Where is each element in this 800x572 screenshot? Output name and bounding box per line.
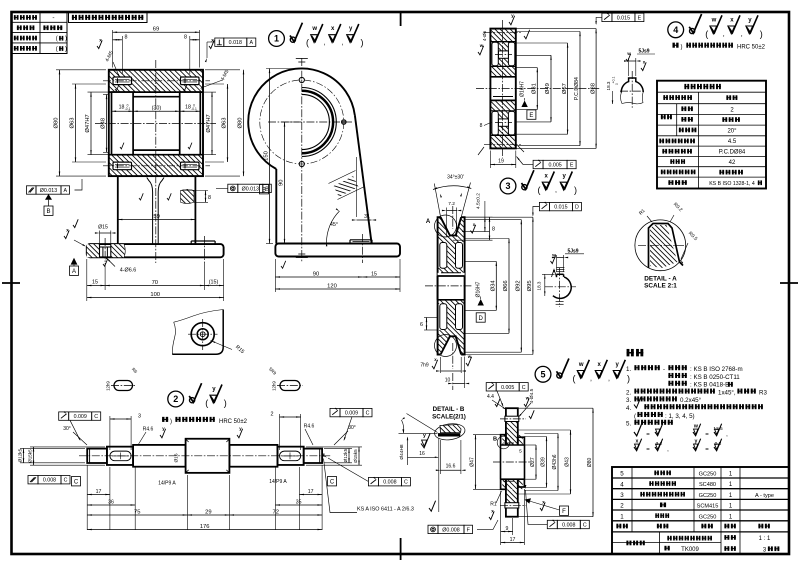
svg-text:SCM415: SCM415 (697, 504, 719, 510)
svg-text:Ø15k5: Ø15k5 (28, 449, 33, 463)
svg-text:18: 18 (185, 105, 191, 111)
svg-text:): ) (224, 398, 227, 408)
svg-text:F: F (562, 509, 566, 515)
svg-text:3.: 3. (626, 397, 631, 404)
dim 16.6 (460, 440, 462, 474)
detail B blob (434, 422, 467, 442)
svg-text:8: 8 (208, 195, 211, 201)
cover right boss (518, 437, 525, 487)
dim 16 (408, 456, 439, 458)
svg-text:16.6: 16.6 (446, 464, 456, 470)
frames 0.009 C (59, 412, 69, 420)
base bolt hole (99, 244, 101, 257)
web left edge (275, 169, 277, 244)
svg-text:0.005: 0.005 (548, 163, 561, 169)
dim 8 top-left (121, 36, 123, 74)
svg-text:4: 4 (620, 481, 624, 488)
svg-text:6: 6 (420, 322, 423, 328)
geo frame conc &#216;0.013 B (228, 184, 238, 192)
svg-text:Ø16H7: Ø16H7 (476, 281, 482, 297)
svg-text:3: 3 (138, 413, 141, 419)
svg-text:): ) (574, 185, 577, 195)
svg-text:42: 42 (729, 160, 736, 166)
svg-text:Ø27: Ø27 (530, 457, 536, 467)
cover dim left (473, 434, 501, 436)
shaft keyway left (110, 451, 131, 461)
svg-text:20°: 20° (727, 129, 737, 135)
svg-text:100: 100 (150, 292, 160, 298)
svg-text:5: 5 (540, 370, 545, 380)
datum C boxes (72, 477, 81, 486)
svg-text:0.008: 0.008 (43, 478, 56, 484)
svg-text:(: ( (306, 38, 309, 48)
detail B thick edge (438, 433, 460, 436)
svg-text:1.: 1. (626, 366, 631, 373)
svg-text:A: A (250, 40, 254, 46)
frame 0.005 E bottom (533, 160, 543, 168)
shaft centerline (79, 455, 331, 457)
svg-text:: KS B 0418-B: : KS B 0418-B (690, 382, 729, 389)
svg-text:: KS B ISO 2768-m: : KS B ISO 2768-m (690, 366, 743, 373)
svg-text:Ø15: Ø15 (98, 225, 108, 231)
svg-text:Ø44H8: Ø44H8 (399, 444, 405, 460)
gear hatch rim top (490, 29, 515, 42)
svg-text:0.018: 0.018 (229, 40, 242, 46)
svg-text:SCALE(2/1): SCALE(2/1) (432, 413, 466, 420)
svg-text:5Js9: 5Js9 (638, 49, 649, 55)
svg-text:,: , (741, 31, 743, 38)
svg-text:4.4: 4.4 (487, 394, 494, 400)
dim 8 top-right (189, 36, 191, 74)
shaft note (162, 417, 164, 422)
detail B taper angle (399, 432, 438, 434)
part callout 4 (668, 22, 684, 38)
dim 59 web (118, 219, 196, 221)
groove angle fan 34 (434, 184, 440, 218)
gear lightening hole bands (499, 51, 509, 58)
frame 0.005 C top (486, 383, 496, 391)
svg-text:Ø34: Ø34 (491, 280, 497, 292)
gear outline (490, 29, 515, 149)
tolerance frame 0.018 A (215, 38, 224, 46)
svg-text:): ) (361, 38, 364, 48)
svg-text:SC480: SC480 (699, 482, 716, 488)
part callout 5 (535, 366, 551, 382)
base check flag bottom (103, 259, 108, 267)
center bore shoulder lines (133, 96, 180, 98)
pulley hatch top rim (438, 217, 465, 242)
svg-text:x: x (99, 38, 102, 43)
svg-text:C: C (583, 523, 587, 529)
bearing pocket right (180, 92, 201, 155)
svg-text:29: 29 (205, 509, 211, 515)
svg-text:C: C (74, 480, 79, 486)
cover bore (501, 445, 525, 479)
svg-text:GC250: GC250 (699, 472, 717, 478)
svg-text:=: = (646, 432, 650, 438)
gear bore (490, 77, 515, 101)
svg-text:17: 17 (510, 537, 516, 543)
right dim lines (465, 260, 497, 262)
svg-text:(: ( (56, 47, 58, 53)
bearing pocket left (112, 92, 134, 155)
pulley hatch web bands (447, 242, 456, 268)
rib local section hatch (181, 189, 195, 203)
svg-text:Ø31: Ø31 (532, 83, 538, 94)
gear hatch web bottom (490, 132, 515, 135)
svg-text:19: 19 (498, 159, 504, 165)
svg-text:7h9: 7h9 (420, 363, 429, 369)
svg-text:Ø63: Ø63 (222, 118, 228, 129)
svg-text:C: C (64, 478, 68, 484)
gear bottom dim 19 (489, 151, 491, 169)
svg-text:SCALE 2:1: SCALE 2:1 (644, 283, 677, 290)
gear web recess slots (492, 42, 498, 65)
svg-text:C: C (366, 411, 370, 417)
svg-text:0.009: 0.009 (74, 414, 87, 420)
svg-text:,: , (590, 375, 592, 382)
svg-text:): ) (681, 45, 683, 51)
cover surface checks (495, 398, 500, 406)
dim 7.2 groove (446, 208, 448, 238)
svg-text:Ø43h6: Ø43h6 (552, 454, 558, 469)
svg-text:4.: 4. (626, 405, 631, 412)
svg-text:8: 8 (125, 35, 128, 41)
svg-text:35: 35 (296, 499, 302, 505)
detail B surface check (421, 434, 430, 448)
bolt circle dash-dot (260, 80, 344, 164)
tapped hole slot (113, 77, 132, 85)
right vertical dims (202, 91, 216, 93)
svg-text:0.015: 0.015 (554, 205, 567, 211)
svg-text:0.009: 0.009 (345, 411, 358, 417)
shaft outline (87, 449, 107, 463)
svg-text:w: w (578, 362, 584, 368)
svg-text:Ø16H7: Ø16H7 (520, 81, 526, 97)
svg-text:C: C (94, 414, 98, 420)
left vertical dims (56, 69, 106, 71)
svg-text:P.C.DØ84: P.C.DØ84 (574, 77, 580, 100)
pulley outline (438, 217, 441, 354)
hole circle (197, 329, 208, 340)
body partial bottom view (172, 310, 223, 355)
svg-text:y: y (694, 438, 697, 444)
keyway detail stadium right (280, 381, 300, 391)
svg-text:R3: R3 (759, 389, 767, 396)
exam info table (12, 12, 68, 54)
svg-text:90: 90 (279, 180, 285, 186)
svg-text:0: 0 (615, 83, 619, 85)
svg-text:Ø47: Ø47 (470, 457, 476, 467)
frame 0.015 D with leader (539, 202, 549, 210)
svg-text:Ø47H7: Ø47H7 (85, 114, 91, 132)
dim (30) center (133, 110, 180, 112)
svg-text:4.5: 4.5 (728, 139, 737, 145)
svg-text:(15): (15) (209, 280, 219, 286)
svg-text:B: B (493, 437, 497, 443)
svg-text:(: ( (56, 36, 58, 42)
svg-text:HRC 50±2: HRC 50±2 (737, 45, 766, 51)
dim 18 right pocket (180, 110, 201, 112)
svg-text:w: w (626, 51, 631, 56)
frame conc 0.008 F (428, 525, 438, 533)
base left local section (87, 244, 100, 257)
svg-text:): ) (170, 419, 172, 425)
svg-text:150: 150 (264, 151, 270, 161)
svg-text:Ø47H7: Ø47H7 (206, 114, 212, 132)
svg-text:16: 16 (419, 451, 425, 457)
body cylinder outline (109, 70, 203, 176)
svg-text:B: B (262, 188, 266, 194)
cover centerline (493, 461, 532, 463)
base bottom dims (86, 259, 88, 301)
svg-text:59: 59 (153, 214, 159, 220)
datum D box (476, 313, 485, 322)
pulley hatch bottom rim (438, 330, 465, 355)
gear note (672, 43, 674, 48)
svg-text:C: C (404, 480, 408, 486)
svg-text:3: 3 (620, 492, 624, 499)
svg-text:Ø67: Ø67 (562, 83, 568, 94)
keyway detail stadium left (114, 381, 133, 391)
dim 69 top (112, 30, 114, 68)
right dim lines gear (516, 67, 538, 69)
pitch line + dim 4.5 (462, 231, 490, 233)
body top hatch band (109, 70, 203, 92)
svg-text:Ø80: Ø80 (238, 117, 244, 128)
svg-text:C: C (522, 385, 526, 391)
detail circle A top (435, 215, 457, 237)
cover spigot (501, 435, 506, 490)
svg-text:0.008: 0.008 (383, 480, 396, 486)
svg-text:18.3: 18.3 (606, 81, 611, 90)
svg-text:3: 3 (505, 181, 510, 191)
svg-text:w: w (711, 17, 717, 23)
svg-text:69: 69 (153, 26, 159, 32)
notes block (627, 349, 630, 356)
pulley keyway surface marks (551, 255, 556, 263)
cover dims right (524, 444, 536, 446)
svg-text:P.C.DØ84: P.C.DØ84 (719, 150, 746, 156)
bottom groove width 7h9 (441, 370, 462, 372)
svg-text:4.5±0.2: 4.5±0.2 (476, 193, 482, 209)
svg-text:w: w (525, 396, 530, 401)
svg-text:Ø63: Ø63 (70, 118, 76, 129)
svg-text:2: 2 (271, 411, 274, 417)
cover flange outline (506, 408, 518, 517)
bottom dim 10 (464, 357, 466, 389)
svg-text:18.3: 18.3 (537, 281, 542, 290)
dim 9 / 17 bottom (500, 491, 502, 545)
svg-text:5.: 5. (626, 421, 631, 428)
svg-text:C: C (330, 480, 335, 486)
svg-text:17: 17 (96, 489, 102, 495)
svg-text:5: 5 (620, 471, 624, 478)
base chamfer marks left (64, 230, 69, 238)
part callout 3 (500, 178, 516, 194)
frame 0.015 E top (602, 13, 612, 21)
cover lip lines (503, 442, 514, 444)
mark below base (281, 261, 286, 269)
svg-text:30°: 30° (63, 426, 71, 432)
svg-text:w: w (467, 354, 472, 359)
svg-text:1: 1 (620, 513, 624, 520)
svg-text:Ø80: Ø80 (587, 458, 593, 468)
datum A bottom (71, 258, 78, 265)
svg-text:4: 4 (673, 25, 678, 35)
tapped hole slot (181, 162, 200, 170)
shaft chamfer lines (89, 449, 91, 463)
right end dia dims (324, 447, 352, 449)
svg-text:Ø16: Ø16 (174, 453, 180, 462)
svg-text:120: 120 (327, 283, 337, 289)
svg-text:): ) (760, 29, 763, 39)
base side view (275, 244, 400, 257)
svg-text:0.2x45°: 0.2x45° (680, 397, 702, 404)
detail A circle (635, 220, 686, 271)
svg-text:90: 90 (313, 271, 319, 277)
svg-text:0.015: 0.015 (617, 15, 630, 21)
svg-text:8: 8 (492, 227, 495, 233)
spur gear spec table (657, 81, 766, 189)
svg-text:D: D (575, 205, 579, 211)
detail A hatch (650, 225, 678, 268)
svg-text:E: E (570, 163, 574, 169)
dim 3 keyway left (109, 416, 111, 450)
datum E box (527, 110, 536, 119)
svg-text:1x45°,: 1x45°, (718, 389, 736, 396)
svg-text:Ø43: Ø43 (565, 457, 571, 467)
svg-text:-0.1: -0.1 (191, 107, 197, 111)
body bottom hatch band (109, 155, 203, 176)
svg-text:8: 8 (184, 35, 187, 41)
left end dia dims (20, 447, 85, 449)
geo frame para &#216;0.013 A (27, 186, 37, 194)
svg-text:-: - (52, 15, 54, 22)
svg-text:-: - (663, 367, 665, 373)
bottom dims 90 15 120 (274, 259, 276, 292)
part callout 1 (269, 31, 285, 47)
svg-text:17: 17 (308, 489, 314, 495)
gear surface check top (509, 16, 515, 25)
surface mark top-right (209, 40, 214, 48)
chamfer marks gear bottom (478, 147, 484, 155)
svg-text:14/P9 A: 14/P9 A (269, 479, 287, 485)
centerline end ticks (296, 58, 308, 60)
svg-text:E: E (529, 113, 533, 119)
svg-text:18: 18 (119, 105, 125, 111)
keyway dims (628, 58, 630, 76)
svg-text:,: , (723, 31, 725, 38)
svg-text:1 : 1: 1 : 1 (759, 536, 771, 542)
detail B lip hatch (440, 425, 461, 433)
svg-text:8: 8 (480, 123, 483, 129)
svg-text:7.2: 7.2 (448, 201, 455, 207)
svg-text:45°: 45° (330, 222, 338, 228)
v-groove top (441, 217, 462, 235)
tapped hole slot (113, 162, 132, 170)
datum F box (560, 506, 569, 515)
svg-text:DETAIL - A: DETAIL - A (644, 275, 677, 282)
dim 8 pitch (465, 216, 493, 218)
part callout 2 (168, 391, 184, 407)
svg-text:: KS B 0250-CT11: : KS B 0250-CT11 (690, 374, 740, 381)
frame centering tick marks (2, 282, 20, 284)
svg-text:=: = (646, 447, 650, 453)
svg-text:Ø15k5: Ø15k5 (353, 449, 358, 463)
svg-text:Ø0.008: Ø0.008 (442, 527, 459, 533)
detail B indicator (497, 436, 510, 449)
svg-text:A: A (63, 188, 67, 194)
svg-text:): ) (627, 373, 630, 383)
svg-text:9: 9 (506, 526, 509, 532)
svg-text:TK009: TK009 (681, 547, 699, 553)
dim 18 left pocket (112, 110, 134, 112)
svg-text:Ø39: Ø39 (541, 457, 547, 467)
svg-text:15: 15 (371, 271, 377, 277)
svg-text:36: 36 (108, 499, 114, 505)
svg-text:-0.1: -0.1 (125, 107, 131, 111)
pulley keyway dim 18.3 (542, 273, 555, 275)
datum B chain under parallel frame (45, 194, 52, 200)
svg-text:2.: 2. (626, 389, 631, 396)
body side view boss arc (248, 68, 355, 169)
gear left marks (478, 46, 484, 55)
detail circle bottom (435, 335, 457, 357)
svg-text:x: x (635, 438, 638, 444)
svg-text:12h9: 12h9 (106, 381, 111, 391)
detail A groove profile (649, 224, 684, 269)
svg-text:70: 70 (152, 280, 158, 286)
cover hatch regions (506, 422, 518, 435)
svg-text:w: w (311, 26, 317, 32)
svg-text:+0.1: +0.1 (612, 77, 616, 84)
pulley keyway dim 5Js9 (556, 255, 558, 272)
keyway partial view (621, 78, 643, 93)
svg-text:y: y (423, 433, 426, 439)
svg-text:w: w (479, 43, 484, 48)
svg-text:DETAIL - B: DETAIL - B (433, 406, 465, 413)
datum B left (260, 185, 269, 194)
svg-text:E: E (638, 15, 642, 21)
surface checks bottom (432, 360, 438, 369)
svg-text:(: ( (205, 398, 208, 408)
svg-text:Ø80: Ø80 (54, 117, 60, 128)
gear pitch lines (484, 31, 522, 33)
svg-text:w: w (551, 253, 556, 258)
bore arcs (half section) (302, 88, 337, 157)
bottom dims shaft (86, 465, 88, 530)
svg-text:14/P9 A: 14/P9 A (158, 481, 176, 487)
svg-text:KS A ISO 6411 - A 2/6.3: KS A ISO 6411 - A 2/6.3 (357, 507, 414, 513)
frames 0.008 C (28, 476, 38, 484)
label 4-&#216;6.6 (106, 258, 115, 267)
svg-text:Ø92: Ø92 (516, 280, 522, 291)
counterbore dim &#216;15 (99, 231, 101, 245)
partial view break lines (174, 310, 224, 323)
centerlines (301, 58, 303, 262)
rib local section (rotated hatch patch) (333, 176, 358, 197)
svg-text:A - type: A - type (755, 493, 774, 499)
v-groove bottom (441, 336, 462, 354)
shaft keyway right (280, 451, 301, 461)
svg-text:Ø12k5: Ø12k5 (343, 448, 348, 462)
svg-text:4-Ø6: 4-Ø6 (482, 30, 487, 41)
surface checks on shaft (237, 429, 243, 438)
pulley keyway partial view (557, 273, 564, 275)
base pad right (349, 240, 351, 244)
pulley keyway break ticks (556, 266, 564, 268)
